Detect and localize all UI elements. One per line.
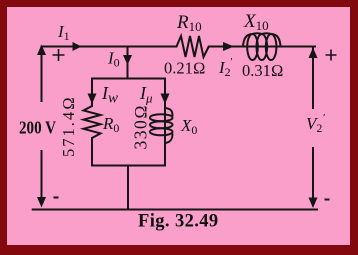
svg-text:571.4Ω: 571.4Ω — [59, 95, 78, 157]
svg-text:0.31Ω: 0.31Ω — [242, 61, 284, 80]
svg-text:200 V: 200 V — [19, 118, 56, 138]
svg-text:330Ω: 330Ω — [131, 104, 151, 150]
svg-text:0.21Ω: 0.21Ω — [164, 59, 206, 78]
svg-text:Fig. 32.49: Fig. 32.49 — [138, 212, 219, 232]
